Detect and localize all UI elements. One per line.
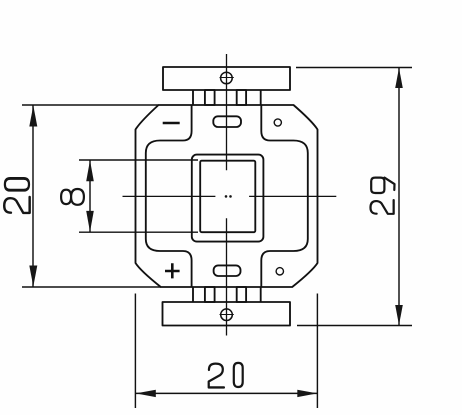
bottom tab hole center dash (220, 314, 234, 316)
top neck right wire (260, 90, 262, 105)
top right hole (274, 119, 281, 126)
bottom pin left (205, 287, 215, 302)
text 20 left digit 0 (5, 178, 29, 190)
dim 20 left extension top (22, 104, 159, 106)
plus mark (165, 263, 180, 278)
top neck left wire (192, 90, 194, 105)
bottom tab (163, 302, 291, 326)
top tab hole (221, 72, 233, 84)
dim 8 extension top (79, 159, 198, 161)
text 20 left digit 2 (4, 197, 29, 213)
text 20 bottom digit 2 (209, 364, 224, 388)
horizontal centerline (123, 195, 337, 197)
LED outer ring (192, 155, 264, 242)
dim 20 left extension bottom (22, 286, 161, 288)
top pin left (205, 90, 215, 105)
bottom neck left wire (192, 287, 194, 302)
bottom pin right (237, 287, 246, 302)
bottom ellipse pad (214, 265, 241, 276)
top ellipse pad (213, 116, 241, 127)
LED inner square (200, 161, 255, 233)
right pad boundary (261, 105, 308, 287)
minus mark (163, 122, 180, 125)
arrow dim20B right (297, 390, 317, 397)
top tab hole center dash (220, 77, 234, 79)
arrow dim20B left (136, 390, 156, 397)
vertical centerline (226, 54, 228, 336)
top pin right (237, 90, 246, 105)
arrow dim29 top (395, 68, 403, 88)
text 8 (61, 189, 84, 205)
arrow dim20L top (29, 106, 37, 127)
center dots (225, 195, 232, 198)
text 20 bottom digit 0 (234, 363, 243, 387)
dim 20 bottom extension right (316, 294, 318, 409)
top tab (163, 67, 290, 90)
dim 20 bottom line (135, 392, 317, 394)
dim 20 left line (32, 105, 34, 287)
arrow dim8 bottom (86, 211, 94, 232)
text 29 digit 2 (371, 200, 394, 214)
arrow dim8 top (86, 160, 94, 181)
bottom tab hole (221, 309, 233, 321)
dim 8 extension bottom (79, 231, 198, 233)
text 29 digit 9 (371, 178, 394, 193)
left pad boundary (146, 105, 192, 287)
dim 20 bottom extension left (134, 294, 136, 409)
bottom right hole (276, 268, 283, 275)
dim 29 extension bottom (297, 325, 412, 327)
dim 29 line (398, 68, 400, 326)
dim 8 line (89, 160, 91, 232)
body outline (136, 105, 318, 287)
arrow dim29 bottom (395, 305, 403, 325)
dim 29 extension top (296, 67, 412, 69)
bottom neck right wire (260, 287, 262, 302)
arrow dim20L bottom (29, 266, 37, 287)
